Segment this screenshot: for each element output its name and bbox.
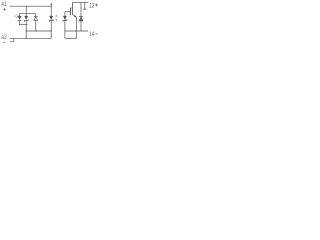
svg-text:14: 14	[89, 31, 94, 38]
opto arrow 2	[55, 19, 56, 21]
transistor T1 emitter arrow	[74, 15, 76, 17]
svg-text:A2: A2	[1, 34, 7, 41]
transistor T1 gate bar	[70, 8, 72, 15]
polarity minus under A2	[3, 41, 6, 43]
zener V5 branch vertical	[64, 12, 66, 39]
wire output 14 horizontal	[65, 30, 88, 32]
transistor T1 channel bar	[72, 2, 74, 14]
opto arrow 1	[55, 15, 56, 17]
diode V3 lead top	[35, 14, 37, 17]
diode V3 lower lead	[35, 21, 37, 31]
wire mid horizontal	[26, 30, 51, 32]
wire gate lead	[65, 11, 70, 13]
diode V3 cathode bar	[34, 15, 38, 17]
wire V5 bottom horizontal	[65, 37, 76, 39]
LED V1 lead	[19, 14, 21, 16]
arrowhead up at V4 top	[51, 2, 52, 4]
wire top rail	[19, 13, 36, 15]
zener V2 triangle	[24, 16, 28, 20]
wire top output rail	[73, 1, 89, 3]
node V4 mid junction	[51, 30, 52, 31]
node A1 feed junction	[26, 6, 27, 7]
terminal 13 stub	[84, 2, 86, 9]
transistor T1 emitter path	[73, 14, 77, 38]
node V3 junction	[35, 30, 36, 31]
node mid junction	[26, 30, 27, 31]
node A2 junction	[26, 38, 27, 39]
svg-text:13: 13	[89, 3, 94, 10]
diode V6 cathode bar	[79, 15, 83, 17]
wire x26 lower vertical	[25, 25, 27, 39]
zener V5 bar with hooks	[63, 19, 67, 22]
LED V1 lower lead	[19, 21, 21, 25]
suppressor V4 triangle	[49, 16, 53, 20]
diode V6 triangle up	[79, 17, 83, 21]
LED V1 cathode bar	[18, 20, 22, 22]
suppressor V4 bar with hooks	[49, 19, 53, 22]
node source junction	[76, 30, 77, 31]
polarity plus under A1	[3, 8, 6, 11]
node V4 top junction	[51, 6, 52, 7]
arrowhead up at source join	[76, 37, 77, 39]
wire bottom rail	[19, 24, 28, 26]
zener V2 leads	[25, 14, 27, 25]
LED V1 triangle	[18, 16, 22, 20]
wire feed vertical	[25, 6, 27, 14]
svg-text:A1: A1	[1, 1, 7, 8]
diode V3 triangle up	[34, 17, 38, 21]
wire A2 horizontal	[10, 37, 52, 39]
LED V1 emission arrows	[15, 14, 18, 17]
minus hook at A2 wire start	[10, 39, 14, 42]
zener V5 triangle	[63, 16, 67, 20]
zener V2 bar with hooks	[24, 19, 28, 22]
wire A1 horizontal	[10, 5, 52, 7]
suppressor V4 vertical branch	[50, 3, 52, 38]
transistor T1 gate-top jog	[70, 7, 72, 9]
diode V6 branch vertical	[80, 2, 82, 31]
